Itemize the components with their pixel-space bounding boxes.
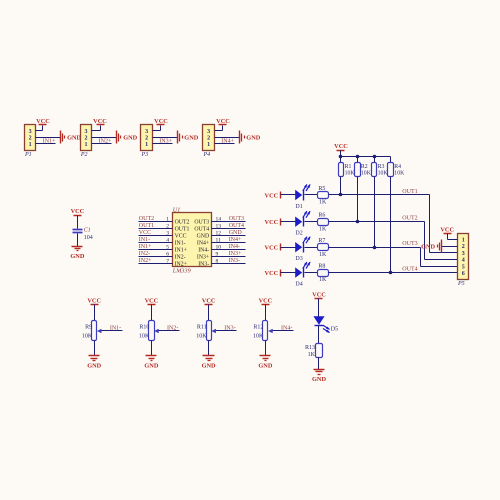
svg-text:VCC: VCC	[265, 270, 279, 277]
svg-text:1K: 1K	[308, 352, 316, 358]
svg-text:GND: GND	[258, 363, 272, 370]
svg-text:R13: R13	[305, 345, 315, 351]
svg-text:GND: GND	[197, 234, 210, 240]
svg-text:8: 8	[216, 258, 219, 264]
svg-text:GND: GND	[144, 363, 158, 370]
svg-text:OUT4: OUT4	[194, 227, 209, 233]
svg-text:R8: R8	[318, 263, 325, 269]
svg-text:IN2+: IN2+	[99, 138, 112, 144]
svg-text:R5: R5	[318, 186, 325, 192]
svg-text:R3: R3	[378, 164, 385, 170]
svg-text:3: 3	[207, 129, 210, 135]
svg-text:OUT2: OUT2	[402, 216, 417, 222]
svg-text:VCC: VCC	[87, 297, 101, 304]
svg-text:IN4-: IN4-	[281, 325, 292, 331]
svg-text:GND: GND	[123, 135, 137, 142]
svg-text:IN3+: IN3+	[159, 138, 172, 144]
svg-text:IN1-: IN1-	[175, 241, 186, 247]
svg-text:P1: P1	[24, 152, 32, 158]
svg-text:OUT2: OUT2	[139, 216, 154, 222]
svg-text:10K: 10K	[361, 171, 372, 177]
svg-text:2: 2	[145, 135, 148, 141]
svg-text:VCC: VCC	[216, 118, 230, 125]
svg-text:IN1+: IN1+	[43, 138, 56, 144]
svg-text:GND: GND	[246, 135, 260, 142]
svg-text:VCC: VCC	[93, 118, 107, 125]
svg-text:VCC: VCC	[265, 219, 279, 226]
svg-text:OUT3: OUT3	[194, 220, 209, 226]
svg-text:104: 104	[84, 235, 93, 241]
svg-text:12: 12	[216, 230, 222, 236]
svg-text:VCC: VCC	[259, 297, 273, 304]
svg-text:2: 2	[85, 135, 88, 141]
svg-text:OUT4: OUT4	[229, 223, 244, 229]
svg-text:GND: GND	[421, 243, 435, 250]
svg-text:R6: R6	[318, 213, 325, 219]
svg-text:IN3-: IN3-	[198, 262, 209, 268]
svg-text:1: 1	[462, 238, 465, 244]
svg-text:P2: P2	[80, 152, 88, 158]
svg-text:2: 2	[166, 223, 169, 229]
svg-text:D4: D4	[295, 281, 302, 287]
svg-text:10: 10	[216, 244, 222, 250]
svg-text:GND: GND	[184, 135, 198, 142]
svg-text:GND: GND	[70, 253, 84, 260]
svg-text:IN4+: IN4+	[221, 138, 234, 144]
svg-text:P3: P3	[141, 152, 149, 158]
svg-text:VCC: VCC	[145, 297, 159, 304]
svg-text:OUT3: OUT3	[402, 241, 417, 247]
svg-text:10K: 10K	[378, 171, 389, 177]
svg-text:U1: U1	[173, 206, 181, 213]
svg-text:VCC: VCC	[312, 291, 326, 298]
svg-text:IN3+: IN3+	[197, 255, 209, 261]
svg-text:11: 11	[216, 237, 222, 243]
svg-text:VCC: VCC	[334, 143, 348, 150]
svg-text:P5: P5	[457, 281, 465, 287]
svg-text:IN3+: IN3+	[229, 251, 242, 257]
svg-text:14: 14	[216, 216, 222, 222]
svg-text:IN4-: IN4-	[229, 244, 240, 250]
svg-text:3: 3	[29, 129, 32, 135]
svg-text:GND: GND	[312, 376, 326, 383]
svg-text:IN2-: IN2-	[175, 255, 186, 261]
svg-text:IN3-: IN3-	[224, 325, 235, 331]
svg-text:GND: GND	[229, 230, 243, 236]
svg-text:OUT3: OUT3	[229, 216, 244, 222]
svg-text:2: 2	[462, 244, 465, 250]
svg-text:IN1-: IN1-	[139, 237, 150, 243]
svg-text:C1: C1	[84, 228, 91, 234]
svg-text:3: 3	[145, 129, 148, 135]
svg-text:OUT4: OUT4	[402, 266, 417, 272]
svg-text:1: 1	[207, 142, 210, 148]
svg-text:IN3-: IN3-	[229, 258, 240, 264]
svg-text:3: 3	[166, 230, 169, 236]
svg-text:13: 13	[216, 223, 222, 229]
svg-text:VCC: VCC	[71, 208, 85, 215]
svg-text:10K: 10K	[139, 334, 150, 340]
svg-text:VCC: VCC	[36, 118, 50, 125]
svg-text:1: 1	[145, 142, 148, 148]
svg-text:1: 1	[166, 216, 169, 222]
svg-text:10K: 10K	[196, 334, 207, 340]
svg-text:OUT1: OUT1	[139, 223, 154, 229]
svg-text:R7: R7	[318, 238, 325, 244]
svg-text:VCC: VCC	[139, 230, 151, 236]
svg-text:IN4-: IN4-	[198, 248, 209, 254]
svg-text:1K: 1K	[319, 200, 327, 206]
svg-text:IN2-: IN2-	[139, 251, 150, 257]
svg-text:IN2+: IN2+	[139, 258, 152, 264]
svg-text:OUT1: OUT1	[175, 227, 190, 233]
svg-text:D3: D3	[295, 256, 302, 262]
svg-text:R2: R2	[361, 164, 368, 170]
svg-text:D1: D1	[295, 204, 302, 210]
svg-text:R10: R10	[139, 325, 149, 331]
svg-text:R11: R11	[197, 325, 207, 331]
svg-text:1: 1	[29, 142, 32, 148]
svg-text:4: 4	[166, 237, 169, 243]
svg-text:P4: P4	[203, 151, 211, 158]
svg-text:GND: GND	[87, 363, 101, 370]
svg-text:6: 6	[166, 251, 169, 257]
svg-text:10K: 10K	[394, 171, 405, 177]
svg-text:OUT2: OUT2	[175, 220, 190, 226]
svg-text:VCC: VCC	[202, 297, 216, 304]
svg-text:IN1+: IN1+	[139, 244, 152, 250]
svg-text:2: 2	[207, 135, 210, 141]
svg-text:1K: 1K	[319, 226, 327, 232]
svg-text:VCC: VCC	[265, 245, 279, 252]
svg-text:6: 6	[462, 271, 465, 277]
svg-text:D2: D2	[295, 231, 302, 237]
svg-text:R1: R1	[345, 164, 352, 170]
svg-text:4: 4	[462, 258, 465, 264]
svg-text:LM339: LM339	[172, 268, 191, 275]
svg-text:1: 1	[85, 142, 88, 148]
svg-text:10K: 10K	[253, 334, 264, 340]
svg-text:IN2-: IN2-	[167, 325, 178, 331]
svg-text:VCC: VCC	[175, 234, 187, 240]
svg-text:IN4+: IN4+	[197, 241, 209, 247]
svg-text:2: 2	[29, 135, 32, 141]
svg-text:IN1+: IN1+	[175, 248, 187, 254]
svg-text:VCC: VCC	[440, 227, 454, 234]
svg-text:1K: 1K	[319, 252, 327, 258]
svg-text:7: 7	[166, 258, 169, 264]
svg-text:VCC: VCC	[154, 118, 168, 125]
svg-text:GND: GND	[202, 363, 216, 370]
svg-text:10K: 10K	[345, 171, 356, 177]
svg-text:R9: R9	[85, 325, 92, 331]
svg-text:5: 5	[462, 264, 465, 270]
svg-text:9: 9	[216, 251, 219, 257]
svg-text:10K: 10K	[82, 334, 93, 340]
svg-text:GND: GND	[67, 135, 81, 142]
svg-text:VCC: VCC	[265, 192, 279, 199]
svg-text:R4: R4	[394, 164, 401, 170]
svg-text:3: 3	[462, 251, 465, 257]
svg-text:IN1-: IN1-	[110, 325, 121, 331]
svg-text:D5: D5	[331, 327, 338, 333]
svg-text:R12: R12	[253, 325, 263, 331]
svg-text:OUT1: OUT1	[402, 189, 417, 195]
svg-text:5: 5	[166, 244, 169, 250]
svg-text:IN4+: IN4+	[229, 237, 242, 243]
svg-text:3: 3	[85, 129, 88, 135]
svg-text:1K: 1K	[319, 277, 327, 283]
